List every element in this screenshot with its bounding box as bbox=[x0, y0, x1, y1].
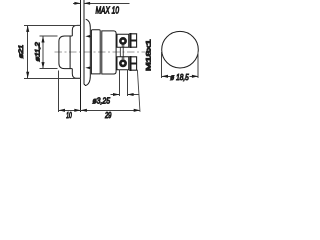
svg-text:29: 29 bbox=[104, 111, 112, 120]
dim d21 extension bottom bbox=[24, 77, 80, 79]
terminal clamp top bbox=[130, 33, 132, 47]
terminal screw shank bottom bbox=[122, 57, 124, 60]
dim 29 arrow left bbox=[81, 109, 87, 112]
dim MAX10 arrow left bbox=[74, 2, 80, 5]
dim d21 extension top bbox=[24, 24, 80, 26]
dim d11,2 arrow bottom bbox=[41, 62, 44, 69]
button cap bbox=[59, 36, 72, 69]
clamp corner link bbox=[136, 69, 139, 71]
terminal clamp bottom bbox=[130, 56, 132, 70]
dim d3,25 arrow left bbox=[113, 93, 119, 96]
dim d18,5 arrow left bbox=[162, 75, 168, 78]
panel pointer arrow top bbox=[85, 35, 90, 38]
dim 29 arrow right bbox=[134, 109, 140, 112]
dim d18,5 arrow right bbox=[192, 75, 198, 78]
svg-text:M18x1: M18x1 bbox=[145, 39, 152, 71]
panel back line bbox=[84, 0, 86, 85]
thread section bbox=[91, 30, 100, 74]
rear housing bbox=[102, 31, 116, 74]
terminal screw bottom bbox=[119, 59, 127, 67]
dim d3,25 line right bbox=[127, 94, 139, 96]
dim MAX10 line right tail bbox=[84, 2, 130, 4]
dim d3,25 ext lines bbox=[119, 70, 127, 96]
svg-text:10: 10 bbox=[66, 111, 72, 120]
dim MAX10 line left tail bbox=[73, 2, 81, 4]
terminal housing bottom bbox=[117, 57, 129, 70]
dim d11,2 arrow top bbox=[41, 36, 44, 43]
dim MAX10 arrow right bbox=[84, 2, 90, 5]
nut dome bbox=[86, 19, 91, 85]
dim d21 arrow bottom bbox=[26, 72, 29, 79]
dim d3,25 arrow right bbox=[127, 93, 133, 96]
dim d18,5 ext right bbox=[197, 52, 199, 78]
panel pointer arrow bottom bbox=[85, 66, 90, 69]
dim d18,5 line bbox=[162, 75, 199, 77]
dim d11,2 extension top bbox=[40, 35, 58, 37]
dim 10 arrow left bbox=[59, 109, 65, 112]
dim d11,2 extension bottom bbox=[40, 68, 58, 70]
bezel cone bbox=[72, 25, 80, 78]
bottom dim ext right bbox=[137, 70, 140, 112]
centerline bbox=[55, 51, 146, 53]
dim d11,2 line bbox=[42, 36, 44, 69]
svg-text:MAX 10: MAX 10 bbox=[96, 5, 120, 16]
dim d3,25 line left bbox=[111, 94, 120, 96]
terminal screw shank top bbox=[122, 45, 124, 47]
bottom dim line bbox=[59, 109, 140, 111]
dim d21 arrow top bbox=[26, 25, 29, 32]
terminal housing top bbox=[117, 34, 129, 47]
svg-text:ø 18,5: ø 18,5 bbox=[170, 73, 189, 82]
svg-text:ø21: ø21 bbox=[18, 44, 25, 58]
svg-text:ø11,2: ø11,2 bbox=[35, 42, 42, 62]
terminal screw top bbox=[119, 37, 127, 45]
dim d21 line bbox=[27, 25, 29, 78]
bottom dim ext left bbox=[58, 71, 60, 112]
dim 10 arrow right bbox=[74, 109, 80, 112]
panel front line bbox=[80, 0, 82, 112]
dim d18,5 ext left bbox=[161, 52, 163, 78]
svg-text:ø3,25: ø3,25 bbox=[93, 96, 111, 106]
connector bar bbox=[120, 47, 123, 56]
front view circle bbox=[162, 31, 199, 68]
